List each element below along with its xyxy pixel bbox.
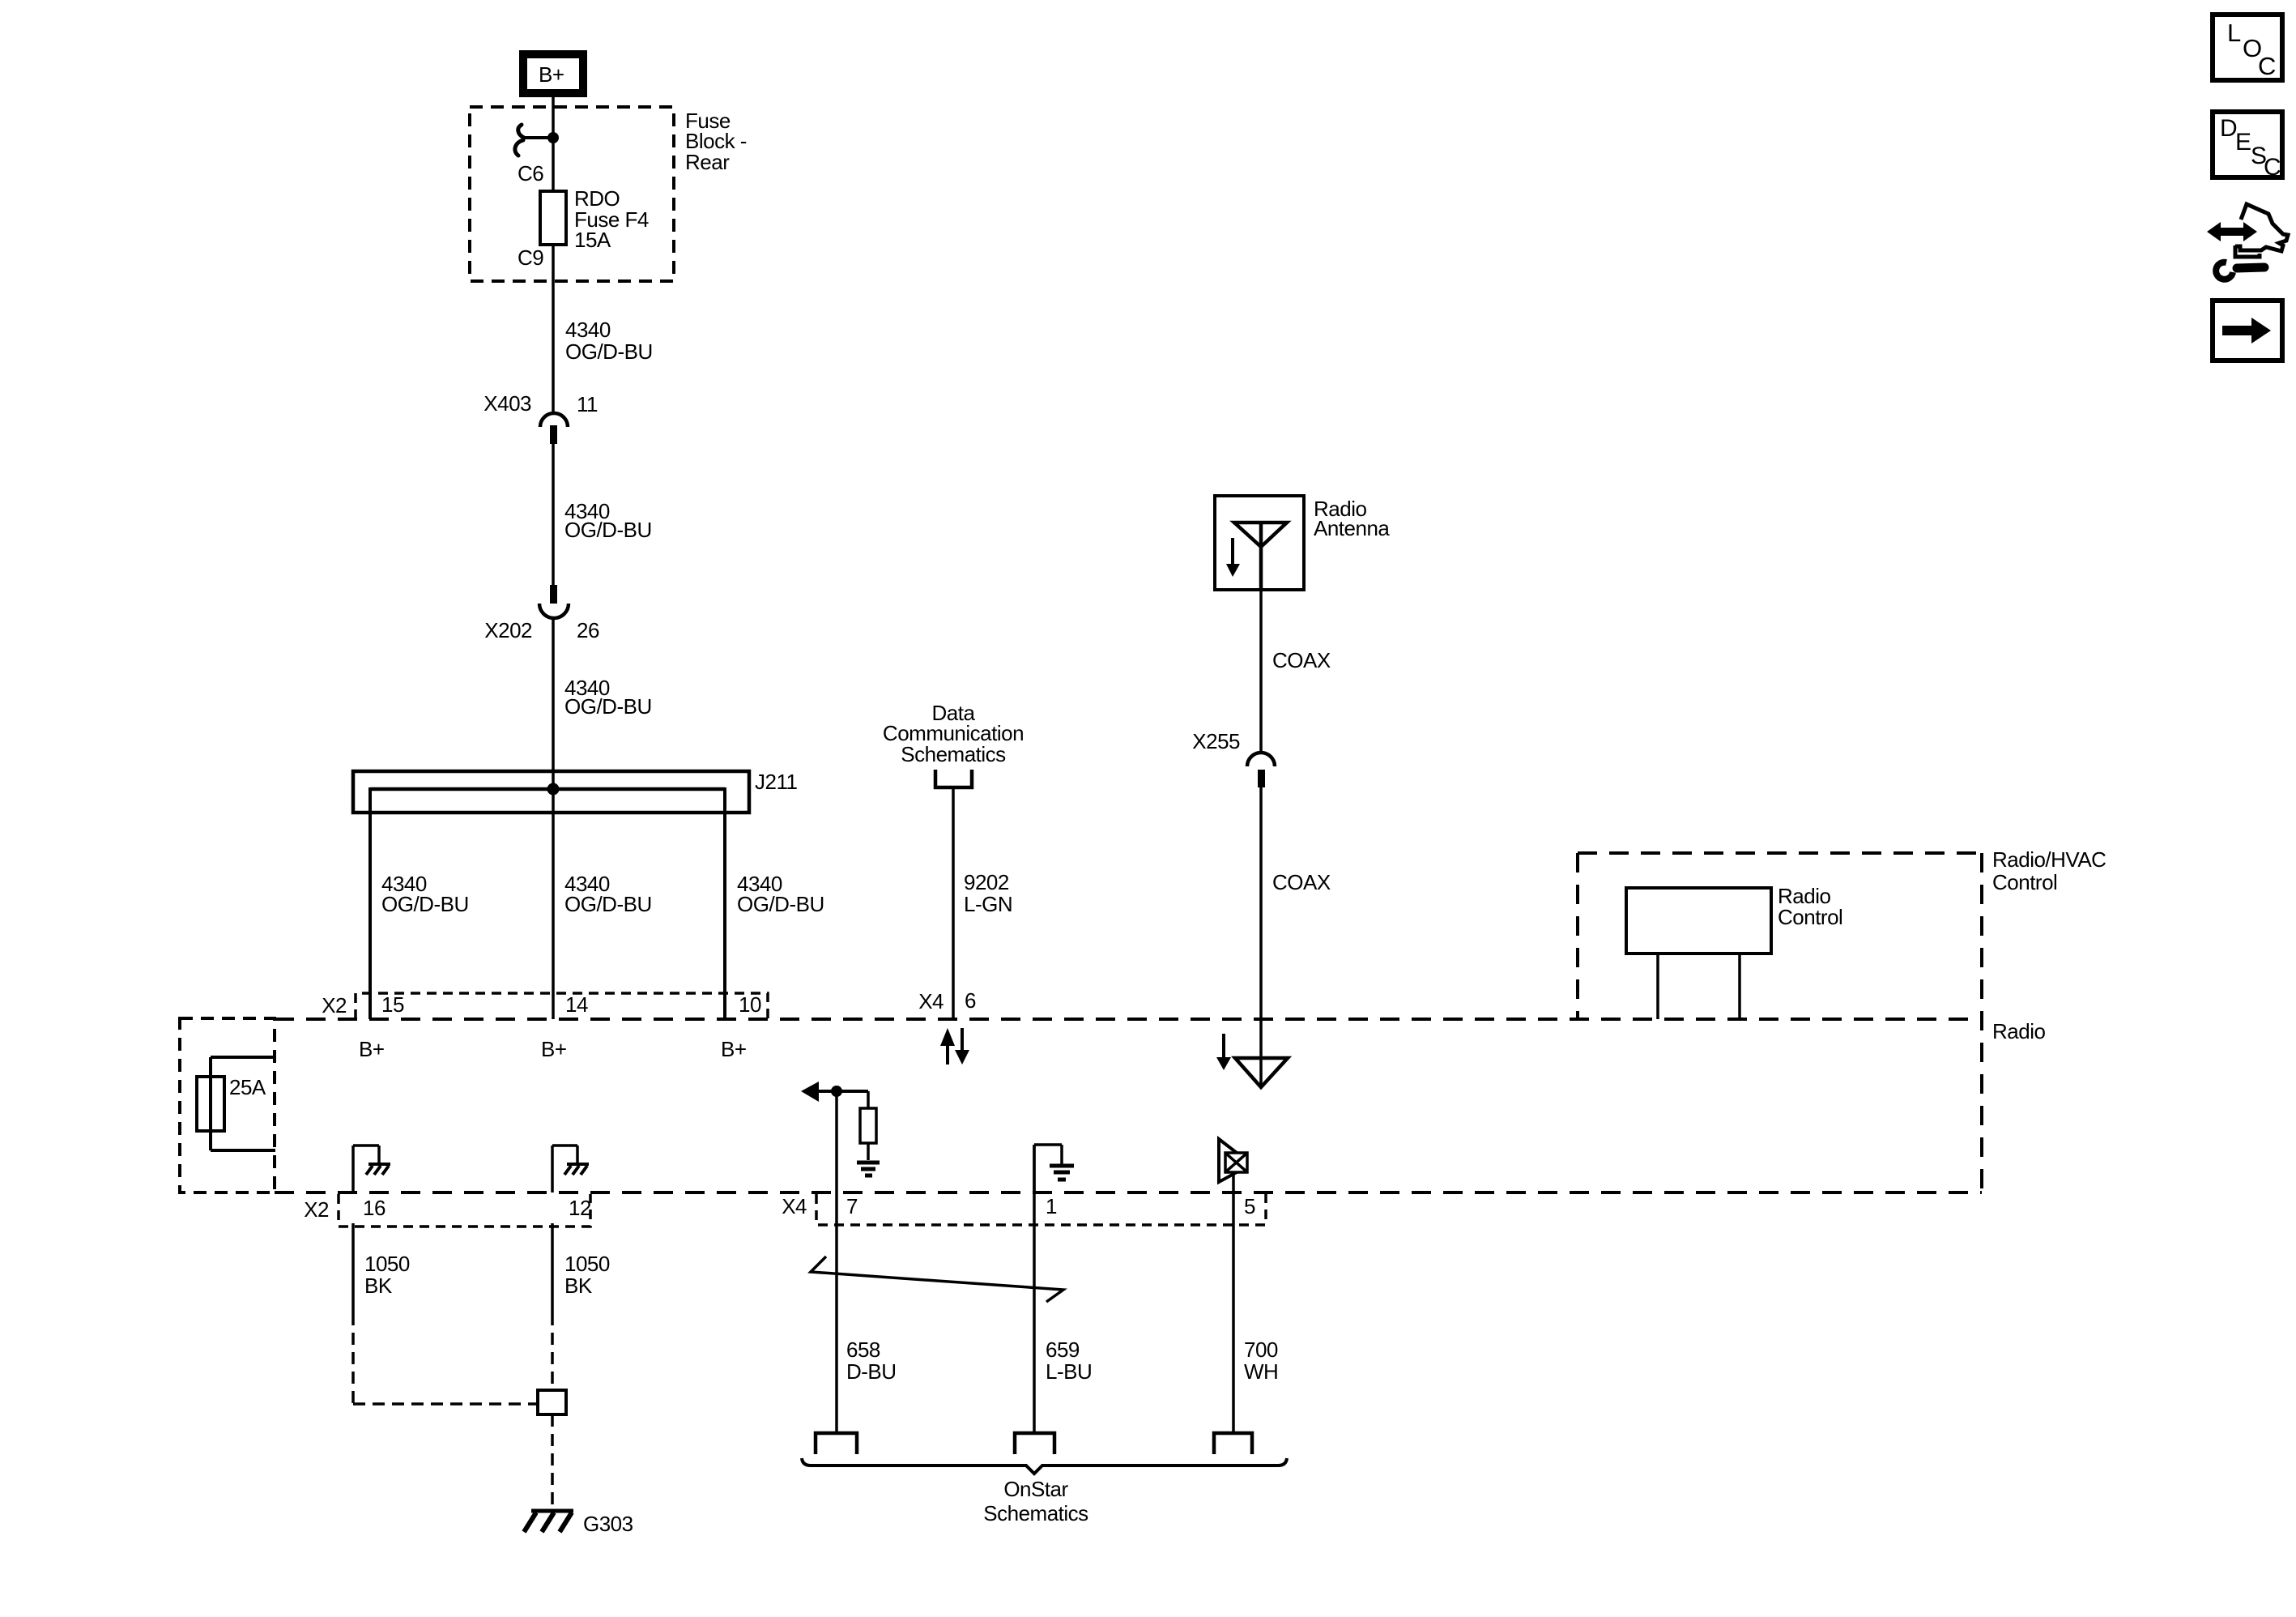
down arrow in antenna box [1226,538,1240,577]
svg-text:OnStar: OnStar [1003,1477,1068,1501]
splice junction square [538,1390,566,1414]
icon wrench [2216,262,2264,279]
icon forward arrow box [2213,301,2282,361]
twisted pair indicator [811,1256,1063,1302]
dashed continuation wire pin 16 [351,1313,355,1404]
svg-text:X202: X202 [484,618,532,642]
net names B+ at radio pins [359,1037,747,1061]
svg-text:B+: B+ [541,1037,567,1061]
serial data up arrow [940,1028,955,1064]
connector X403 pin 11 [483,391,598,444]
wire X403 to X202, circuit 4340 OG/D-BU [552,444,555,585]
radio control legs [1656,954,1659,1019]
coax wire antenna to X255 [1259,590,1263,753]
svg-text:1050: 1050 [564,1252,610,1276]
svg-text:X2: X2 [304,1197,329,1222]
svg-text:6: 6 [965,988,976,1013]
ground hook at pin 16 [353,1146,379,1192]
svg-text:Radio: Radio [1992,1019,2045,1043]
wire B+ to fuse block C6 [552,97,555,191]
circuit breaker 25A dashed sub-box [180,1018,275,1192]
signal ground at pin 1 [1050,1166,1074,1180]
svg-text:5: 5 [1244,1194,1255,1218]
svg-text:10: 10 [739,992,761,1017]
wire radio X4 pin 7 to OnStar, circuit 658 D-BU [835,1091,838,1434]
svg-text:OG/D-BU: OG/D-BU [565,339,653,364]
signal ground under resistor [857,1163,880,1175]
svg-text:B+: B+ [359,1037,385,1061]
svg-text:OG/D-BU: OG/D-BU [564,694,652,719]
wire C9 to X403, circuit 4340 OG/D-BU [552,245,555,414]
wire pin 16 circuit 1050 BK [351,1223,355,1313]
wire to X4 pin 6, circuit 9202 L-GN [952,787,955,1019]
antenna symbol in antenna box [1234,523,1287,590]
data communication schematics callout [883,701,1024,766]
fuse block - rear dashed box [470,107,674,281]
splice pack J211 [353,770,797,813]
brace OnStar schematics [802,1458,1287,1474]
connector X2 pin row 16 12 [304,1194,591,1227]
dashed continuation wire pin 12 [551,1313,554,1390]
svg-text:C: C [2264,154,2281,181]
icon vehicle outline [2235,204,2288,257]
terminal at 700 wire end [1214,1433,1252,1454]
svg-text:E: E [2235,129,2251,156]
svg-text:C9: C9 [518,245,543,270]
ground hook at pin 12 [552,1146,577,1192]
svg-text:OG/D-BU: OG/D-BU [564,892,652,916]
svg-text:Control: Control [1992,870,2057,894]
node junction on pin 7 line [831,1086,842,1097]
svg-text:15: 15 [381,992,404,1017]
svg-text:Antenna: Antenna [1314,516,1390,540]
wire radio X4 pin 5 to OnStar, circuit 700 WH [1232,1173,1235,1434]
svg-text:D-BU: D-BU [846,1359,897,1384]
svg-text:COAX: COAX [1272,870,1331,894]
svg-text:OG/D-BU: OG/D-BU [381,892,469,916]
B+ power symbol box [523,54,583,93]
off-page bracket [935,770,972,787]
svg-text:L-BU: L-BU [1046,1359,1092,1384]
icon LOC box [2213,15,2282,80]
svg-text:7: 7 [846,1194,858,1218]
wire J211 to pin 14, circuit 4340 OG/D-BU [564,872,652,916]
dashed wire to splice square [353,1402,536,1406]
svg-text:X4: X4 [782,1194,807,1218]
svg-text:X2: X2 [322,993,347,1018]
svg-text:G303: G303 [583,1512,633,1536]
speaker symbol at pin 5 [1219,1139,1247,1182]
svg-text:4340: 4340 [565,318,611,342]
svg-text:Schematics: Schematics [983,1501,1088,1525]
svg-text:COAX: COAX [1272,648,1331,672]
icon DESC box [2213,112,2282,181]
radio control sub-module box [1626,884,1842,954]
svg-text:X4: X4 [918,989,944,1013]
svg-text:25A: 25A [229,1075,266,1099]
svg-text:C6: C6 [518,161,543,186]
svg-text:11: 11 [577,392,598,416]
fuse block labels [685,109,747,174]
svg-text:12: 12 [569,1196,591,1220]
svg-text:BK: BK [564,1274,593,1298]
svg-text:B+: B+ [539,62,564,87]
circuit breaker 25A [197,1057,275,1150]
svg-text:Radio/HVAC: Radio/HVAC [1992,847,2106,872]
wire J211 to pin 15, circuit 4340 OG/D-BU [368,787,372,1019]
svg-text:9202: 9202 [964,870,1009,894]
coax wire X255 to radio [1259,787,1263,1087]
antenna input funnel symbol in radio [1235,1058,1288,1087]
svg-text:Control: Control [1778,905,1842,929]
svg-text:16: 16 [363,1196,386,1220]
svg-text:OG/D-BU: OG/D-BU [564,518,652,542]
connector X2 pin row 15 14 10 [322,992,768,1019]
svg-text:Schematics: Schematics [901,742,1006,766]
wire pin 12 circuit 1050 BK [551,1223,554,1313]
svg-text:14: 14 [565,992,588,1017]
off-page arrow at OnStar audio line [801,1082,868,1102]
svg-text:659: 659 [1046,1338,1080,1362]
svg-text:700: 700 [1244,1338,1278,1362]
node junction in fuse block [547,132,559,143]
terminal at 658 wire end [816,1433,857,1454]
wire radio X4 pin 1 to OnStar, circuit 659 L-BU [1033,1145,1036,1434]
svg-text:OG/D-BU: OG/D-BU [737,892,824,916]
connector X4 pin row 7 1 5 [782,1194,1266,1225]
svg-text:26: 26 [577,618,599,642]
svg-text:WH: WH [1244,1359,1278,1384]
chassis ground symbol at pin 12 [564,1164,589,1175]
svg-text:L: L [2227,19,2241,47]
radio/HVAC control dashed box [1578,853,1982,1019]
svg-text:Rear: Rear [685,150,730,174]
chassis ground symbol at pin 16 [366,1164,390,1175]
internal resistor to ground [860,1091,876,1160]
wire X202 to splice J211, circuit 4340 OG/D-BU [552,618,555,1019]
svg-text:J211: J211 [755,770,797,794]
ground hook at pin 1 [1034,1145,1062,1192]
svg-text:B+: B+ [721,1037,747,1061]
svg-text:BK: BK [364,1274,393,1298]
svg-text:D: D [2220,115,2237,142]
svg-text:15A: 15A [574,228,611,252]
connector X255 [1192,729,1275,787]
terminal at 659 wire end [1015,1433,1054,1454]
icon double arrow [2207,222,2257,241]
radio antenna box [1215,496,1390,590]
svg-text:X403: X403 [483,391,531,416]
connector X4 pin 6 labels [918,988,976,1013]
svg-text:L-GN: L-GN [964,892,1012,916]
svg-text:658: 658 [846,1338,880,1362]
bus tap symbol [515,125,549,156]
dashed wire square to G303 [551,1414,554,1510]
svg-text:X255: X255 [1192,729,1240,753]
svg-text:1050: 1050 [364,1252,410,1276]
serial data down arrow [955,1028,969,1064]
fuse RDO F4 15A [540,191,566,245]
svg-text:C: C [2258,52,2276,80]
svg-text:1: 1 [1046,1194,1057,1218]
down arrow at radio antenna input [1216,1034,1231,1070]
wire J211 to pin 10, circuit 4340 OG/D-BU [723,787,726,1019]
radio component dashed outline [275,853,1982,1192]
ground G303 [524,1511,573,1532]
connector X202 pin 26 [484,585,599,642]
